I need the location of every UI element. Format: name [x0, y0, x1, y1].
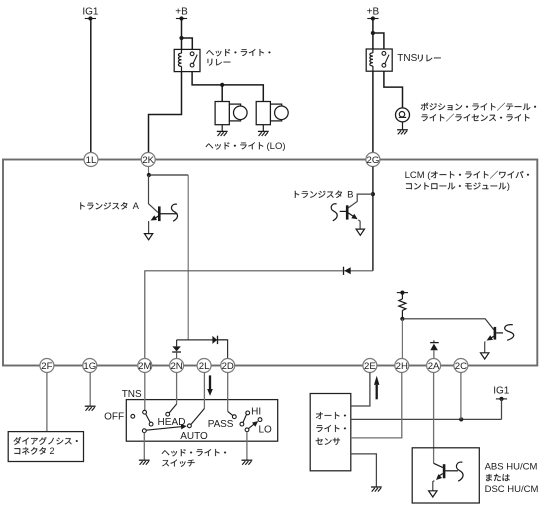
wire sensor to IG1 rail: [351, 418, 502, 420]
switch arm TNS-OFF: [146, 414, 151, 423]
junction TNS +B branch: [371, 31, 375, 35]
switch main arm to AUTO: [146, 426, 183, 430]
pin 2G: [366, 153, 380, 167]
label transistor A: [80, 202, 127, 209]
svg-text:2E: 2E: [364, 361, 376, 372]
svg-text:(LO): (LO): [267, 141, 286, 152]
svg-text:B: B: [347, 190, 353, 201]
svg-text:2G: 2G: [366, 155, 379, 166]
wire junction to pin 2H: [401, 319, 403, 360]
relay headlight coil: [178, 53, 181, 66]
label auto light sensor: [316, 412, 346, 419]
transistor A bar: [158, 206, 161, 221]
relay TNS switch contacts: [382, 52, 386, 56]
svg-text:2A: 2A: [428, 361, 440, 372]
wire collector transistor C: [402, 319, 493, 330]
svg-text:2: 2: [50, 446, 55, 456]
junction resistor node: [400, 317, 404, 321]
contact TNS: [143, 410, 147, 414]
svg-text:HEAD: HEAD: [158, 417, 186, 428]
pin 1G: [83, 359, 97, 373]
svg-text:TNS: TNS: [122, 389, 142, 400]
wire pin 2E to sensor: [351, 373, 370, 407]
junction +B branch: [179, 36, 183, 40]
wire pin 2A to ABS module: [433, 373, 435, 464]
contact HI: [246, 411, 250, 415]
wire +B down to relay coil: [181, 19, 183, 50]
junction 2K node: [147, 173, 151, 177]
wire diode to 2D: [218, 340, 228, 359]
pin 2K: [141, 153, 155, 167]
svg-text:ABS HU/CM: ABS HU/CM: [485, 461, 538, 472]
diode to pin 2D: [212, 336, 217, 344]
contact LO common: [245, 428, 249, 432]
transistor D collector stub: [445, 470, 458, 472]
transistor B collector: [340, 210, 346, 212]
wire pin 2H to sensor: [351, 373, 402, 438]
transistor D squiggle: [456, 462, 463, 481]
signal arrow at 2E: [374, 376, 379, 385]
transistor B squiggle: [331, 204, 337, 221]
pin 1L: [84, 153, 98, 167]
svg-text:PASS: PASS: [208, 419, 234, 430]
contact common left: [142, 429, 146, 433]
resistor R (auto light): [399, 299, 406, 310]
ground position lamp: [402, 122, 404, 130]
wire to left headlamp: [221, 85, 223, 102]
wire pin 2D to PASS contact: [227, 373, 229, 412]
switch headlight (box): [126, 400, 277, 442]
ground left headlamp: [221, 125, 223, 132]
transistor D bar: [443, 464, 446, 478]
wire TNS switch to position lamp: [384, 71, 403, 108]
transistor A emitter: [153, 216, 159, 220]
svg-text:TNS: TNS: [397, 53, 417, 64]
svg-text:+B: +B: [367, 7, 380, 18]
diode on 2M rail: [344, 267, 350, 274]
svg-text:IG1: IG1: [493, 386, 510, 397]
svg-text:LCM (: LCM (: [405, 170, 432, 181]
node internal supply: [397, 292, 408, 294]
wire IG1 to rail: [501, 399, 503, 420]
pin 2E: [363, 359, 377, 373]
contact PASS: [232, 415, 236, 419]
wire base transistor B: [348, 194, 373, 208]
label diagnosis connector 2: [14, 437, 78, 445]
transistor C squiggle: [505, 325, 514, 341]
pin 2N: [170, 359, 184, 373]
wire HI-LO common to ground: [246, 432, 248, 461]
wire pin 2L to AUTO contact: [203, 373, 205, 409]
wire sensor to ground: [351, 454, 377, 487]
pin 2C: [454, 359, 468, 373]
wire pin 1G to ground: [89, 373, 91, 407]
switch arm LO with arrow: [249, 423, 256, 429]
contact HEAD: [166, 412, 170, 416]
wire diode rail horizontal: [177, 339, 228, 341]
svg-text:2D: 2D: [222, 361, 234, 372]
ground pin 1G: [85, 405, 96, 407]
module LCM (box): [3, 160, 537, 366]
transistor A squiggle: [171, 204, 177, 221]
wire pin 2M to TNS contact: [144, 373, 146, 411]
transistor B emitter: [348, 213, 354, 217]
label transistor B: [295, 191, 342, 198]
svg-text:OFF: OFF: [104, 412, 124, 423]
wire diode to 2N: [176, 353, 178, 360]
ground transistor D: [429, 491, 437, 497]
svg-text:IG1: IG1: [82, 6, 99, 17]
svg-text:HI: HI: [251, 407, 261, 418]
svg-text:A: A: [133, 201, 140, 212]
svg-text:2N: 2N: [170, 361, 182, 372]
svg-text:AUTO: AUTO: [180, 431, 208, 442]
wire pin 2G down: [372, 167, 374, 271]
contact AUTO: [188, 424, 192, 428]
contact wiper lower: [149, 422, 153, 426]
transistor C emitter: [489, 336, 494, 339]
sensor auto light (box): [310, 394, 351, 471]
relay TNS (box): [366, 49, 392, 71]
svg-text:+B: +B: [175, 7, 188, 18]
svg-text:2C: 2C: [455, 361, 467, 372]
wire pin 2N to HEAD contact: [176, 373, 178, 405]
junction headlamp left: [220, 83, 224, 87]
wire IG1 to pin 1L: [90, 19, 92, 153]
wire base transistor A: [149, 175, 158, 212]
wire +B branch to relay switch: [182, 38, 193, 49]
transistor D emitter: [438, 474, 443, 477]
module ABS/DSC HU-CM (box): [412, 448, 479, 503]
transistor A collector: [160, 213, 176, 215]
pin 2F: [40, 359, 54, 373]
svg-text:LO: LO: [259, 425, 273, 436]
pin 2A: [427, 359, 441, 373]
wire relay switch to headlamps: [192, 72, 263, 102]
label headlight switch: [162, 449, 226, 456]
ground auto light sensor: [371, 486, 382, 488]
svg-text:2K: 2K: [142, 155, 154, 166]
svg-text:2L: 2L: [199, 361, 210, 372]
label headlight LO: [206, 142, 264, 149]
svg-text:2H: 2H: [396, 361, 408, 372]
wire pin 2F to diagnosis connector: [46, 373, 48, 432]
wire +B branch to TNS switch: [373, 33, 384, 49]
wire TNS coil to pin 2G: [372, 71, 374, 152]
svg-text:): ): [507, 181, 510, 192]
transistor C bar: [494, 327, 497, 340]
pin 2M: [138, 359, 152, 373]
junction 2G node: [371, 192, 375, 196]
wire relay coil to pin 2K: [149, 72, 182, 153]
pin 2L: [197, 359, 211, 373]
svg-text:2F: 2F: [41, 361, 52, 372]
contact OFF: [131, 414, 135, 418]
junction 2C on IG1 rail: [459, 417, 463, 421]
svg-text:1G: 1G: [83, 361, 96, 372]
wire pin 2C down: [460, 373, 462, 420]
wire resistor to junction: [401, 310, 403, 318]
contact LO: [258, 418, 262, 422]
pin 2D: [221, 359, 235, 373]
svg-text:1L: 1L: [86, 155, 97, 166]
ground switch right: [242, 459, 253, 461]
lamp headlight LO left: [229, 104, 240, 121]
wire +B down to TNS coil: [372, 19, 374, 50]
relay headlight switch contacts: [190, 52, 194, 56]
transistor B bar: [346, 205, 349, 219]
ground transistor C: [481, 353, 489, 359]
diode to pin 2N: [172, 346, 180, 351]
switch arm HI: [243, 414, 247, 422]
svg-text:2M: 2M: [138, 361, 151, 372]
wire base transistor D: [434, 463, 443, 467]
label position/tail/license lights: [421, 103, 536, 111]
ground right headlamp: [262, 125, 264, 132]
transistor C collector stub: [496, 332, 503, 334]
lamp headlight LO right: [270, 104, 281, 121]
label headlight relay: [206, 49, 270, 56]
relay TNS coil: [370, 53, 373, 66]
diode clamp at pin 2A: [433, 340, 435, 342]
wire supply to resistor: [401, 293, 403, 299]
connector diagnosis 2 (box): [8, 432, 83, 462]
pin 2H: [395, 359, 409, 373]
contact HI-LO wiper: [240, 422, 244, 426]
svg-text:DSC HU/CM: DSC HU/CM: [485, 484, 539, 495]
wire 2K node to diode rail: [149, 174, 188, 176]
ground transistor B: [356, 229, 364, 235]
relay headlight (box): [174, 49, 200, 71]
lamp position/tail/license: [396, 108, 410, 122]
wire common to ground: [143, 433, 145, 461]
wire pin 2K down: [148, 167, 150, 176]
wire 2G to 2M rail: [344, 270, 373, 272]
signal arrow at 2L: [209, 375, 211, 389]
ground transistor A: [144, 234, 152, 240]
ground switch left: [139, 459, 150, 461]
